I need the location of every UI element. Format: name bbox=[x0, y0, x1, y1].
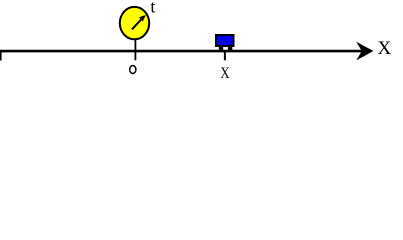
svg-text:X: X bbox=[220, 65, 229, 82]
svg-text:t: t bbox=[150, 0, 155, 16]
clock body (yellow) bbox=[120, 7, 149, 39]
left edge tick bbox=[0, 50, 2, 61]
box right leg bbox=[228, 47, 232, 52]
blue box body bbox=[216, 35, 234, 46]
label O (origin ring) bbox=[130, 66, 136, 74]
axis arrowhead bbox=[356, 42, 373, 61]
clock tick at origin bbox=[134, 39, 136, 60]
clock hand bbox=[132, 19, 142, 30]
box tick below axis bbox=[224, 52, 226, 60]
axis X line bbox=[0, 50, 364, 53]
svg-text:X: X bbox=[378, 38, 392, 59]
clock hand arrowhead bbox=[139, 15, 146, 21]
box left leg bbox=[219, 47, 223, 52]
